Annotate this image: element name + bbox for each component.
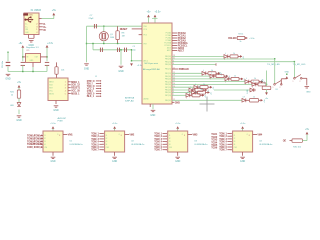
pin IC1 PC5/SCL <box>172 45 177 47</box>
pin end mark <box>254 89 256 91</box>
pin IC1 PC4/SDA <box>172 42 177 44</box>
svg-text:1: 1 <box>65 82 66 84</box>
wire gnd rail <box>86 26 88 62</box>
pin X1 D- <box>39 23 43 25</box>
svg-text:1k: 1k <box>203 84 205 86</box>
USB name bar <box>23 13 28 15</box>
svg-text:PC5/SCL: PC5/SCL <box>165 45 172 47</box>
resistor LED1 <box>208 72 216 75</box>
resistor RM <box>262 86 271 89</box>
pin dot <box>102 149 103 150</box>
svg-text:PB7: PB7 <box>144 44 147 46</box>
supply arrow right <box>226 75 228 78</box>
pin <box>206 92 208 94</box>
capacitor C9 electrolytic <box>6 62 11 65</box>
svg-text:MOSI: MOSI <box>49 93 54 95</box>
pin <box>227 135 230 137</box>
svg-text:BLK_1: BLK_1 <box>87 95 95 98</box>
pin <box>163 143 166 145</box>
svg-text:L: L <box>246 78 247 80</box>
pin <box>96 93 100 95</box>
wire net LED5 <box>172 83 252 85</box>
supply arrow <box>265 92 268 95</box>
wire VBUS to +5V <box>42 18 54 20</box>
svg-text:23: 23 <box>173 80 175 82</box>
junction <box>92 43 93 44</box>
pin dot <box>230 141 231 142</box>
junction <box>103 43 104 44</box>
wire XTAL1 net <box>87 43 143 45</box>
pin <box>99 141 102 143</box>
svg-text:GND: GND <box>175 101 180 104</box>
pin dot <box>102 141 103 142</box>
svg-text:3: 3 <box>65 88 66 90</box>
svg-text:26: 26 <box>173 83 175 85</box>
driver U3 body <box>168 131 188 152</box>
pin <box>99 146 102 148</box>
wire <box>114 129 116 131</box>
junction <box>22 56 23 57</box>
resistor R30 <box>292 139 302 142</box>
svg-text:PB6(X2): PB6(X2) <box>165 79 171 81</box>
pin U4 GND <box>242 152 244 156</box>
svg-text:PB0(X0): PB0(X0) <box>165 64 171 66</box>
wire net LED8 <box>172 92 192 94</box>
wire <box>214 89 250 91</box>
pin <box>249 81 251 83</box>
capacitor C5 <box>118 48 120 52</box>
wire VCC <box>148 17 150 23</box>
svg-text:MOSI_1: MOSI_1 <box>71 93 80 96</box>
pin <box>96 80 100 82</box>
pin U1 GND <box>52 152 54 156</box>
svg-text:USB1: USB1 <box>28 14 33 16</box>
wire <box>22 65 24 71</box>
pin <box>96 82 100 84</box>
origin cross mark <box>200 97 215 112</box>
svg-text:D-: D- <box>25 24 27 26</box>
junction <box>274 58 275 59</box>
junction <box>103 26 104 27</box>
LED LED3 <box>225 77 229 81</box>
svg-text:L: L <box>187 92 188 94</box>
ground <box>240 157 245 158</box>
pin dot <box>100 93 101 94</box>
svg-text:GND: GND <box>150 115 155 117</box>
svg-text:1M: 1M <box>122 36 125 38</box>
wire <box>131 50 133 61</box>
wire net TXLED <box>172 55 224 57</box>
junction <box>32 71 33 72</box>
svg-text:1k: 1k <box>253 97 255 99</box>
pin IC1 PWRLED <box>172 68 178 70</box>
svg-text:RXLED: RXLED <box>228 37 236 40</box>
pin <box>200 94 202 96</box>
junction <box>117 43 118 44</box>
pin IC1 PC0/A0 <box>172 32 177 34</box>
svg-text:29: 29 <box>173 86 175 88</box>
crystal Q1 <box>99 32 108 41</box>
svg-text:5: 5 <box>65 93 66 95</box>
pin <box>96 95 100 97</box>
svg-text:J1: J1 <box>95 76 97 78</box>
svg-text:8: 8 <box>249 135 250 137</box>
svg-text:IC5: IC5 <box>26 50 29 52</box>
resistor LED2 <box>216 75 224 78</box>
wire <box>103 26 105 32</box>
svg-text:TGM_7: TGM_7 <box>154 149 162 152</box>
ground below X1 <box>29 41 34 42</box>
resistor R25 <box>17 90 20 98</box>
supply +3.3V arrow <box>46 45 49 48</box>
pin X1 shield <box>33 35 35 39</box>
svg-text:I4: I4 <box>106 144 108 146</box>
wire <box>177 129 179 131</box>
svg-text:PB6: PB6 <box>144 26 147 28</box>
svg-text:2: 2 <box>65 85 66 87</box>
supply arrow right <box>261 99 263 102</box>
wire AVCC net <box>132 60 143 62</box>
pin <box>99 143 102 145</box>
junction node VIN <box>7 52 8 53</box>
pin dot <box>100 83 101 84</box>
svg-text:I3: I3 <box>44 141 46 143</box>
LED TXLED <box>224 55 228 59</box>
wire <box>242 129 244 131</box>
svg-text:L: L <box>195 84 196 86</box>
pin U3 GND <box>177 152 179 156</box>
wire <box>7 67 9 72</box>
pin <box>208 86 210 88</box>
svg-text:PB5(X1): PB5(X1) <box>165 69 171 71</box>
pin IC1 ADC7 <box>172 50 177 52</box>
wire net LED7 <box>172 89 189 91</box>
svg-text:1k: 1k <box>195 92 197 94</box>
pin <box>256 83 258 85</box>
pin <box>227 141 230 143</box>
ground <box>17 116 22 117</box>
svg-text:I2: I2 <box>106 138 108 140</box>
pin <box>206 72 208 74</box>
pin JP1 5 <box>68 93 71 95</box>
svg-text:I2: I2 <box>44 138 46 140</box>
svg-text:GND: GND <box>50 161 55 163</box>
svg-text:C5: C5 <box>133 46 135 48</box>
header JP1 body <box>48 78 68 101</box>
wire to switch S1 <box>274 59 276 84</box>
resistor R9 <box>55 67 58 74</box>
LED LED1 <box>202 71 206 75</box>
pin <box>198 86 200 88</box>
wire <box>52 129 54 131</box>
ground <box>305 87 310 88</box>
svg-text:I1: I1 <box>106 135 108 137</box>
svg-text:1: 1 <box>273 87 274 89</box>
svg-text:PB3(X3): PB3(X3) <box>165 59 171 61</box>
svg-text:PB4(X0): PB4(X0) <box>165 76 171 78</box>
pin end mark <box>215 63 217 65</box>
svg-text:ULN2803A-2a: ULN2803A-2a <box>131 143 145 146</box>
svg-text:+5v: +5v <box>264 100 266 103</box>
pin dot <box>166 136 167 137</box>
svg-text:18: 18 <box>173 75 175 77</box>
wire <box>32 67 34 72</box>
svg-text:8: 8 <box>59 135 60 137</box>
pin resistor R9 top <box>56 62 58 66</box>
svg-text:GND: GND <box>118 70 124 73</box>
svg-text:+5.5v: +5.5v <box>240 123 246 125</box>
svg-text:L: L <box>226 76 227 78</box>
junction <box>286 74 287 75</box>
svg-text:1: 1 <box>293 81 294 83</box>
svg-text:TGX6: TGX6 <box>211 147 218 150</box>
svg-text:PD5: PD5 <box>144 35 147 37</box>
supply arrow <box>176 126 179 129</box>
svg-text:+5v: +5v <box>265 98 268 100</box>
pin IC1 PC3/A3 <box>172 40 177 42</box>
pin dot <box>102 133 103 134</box>
pin <box>193 89 195 91</box>
capacitor C11 <box>45 62 49 65</box>
svg-text:2: 2 <box>280 87 281 89</box>
pin <box>190 94 192 96</box>
svg-text:OE: OE <box>283 140 287 143</box>
USB trident icon <box>25 17 34 23</box>
pin U1 2 <box>40 137 43 139</box>
svg-text:GND: GND <box>53 109 59 112</box>
pin dot <box>166 144 167 145</box>
ground <box>119 66 124 67</box>
pin IC1 PC2/A2 <box>172 37 177 39</box>
svg-text:VM4: VM4 <box>257 133 262 136</box>
svg-text:1k: 1k <box>262 80 264 82</box>
LED LED6 <box>194 85 198 89</box>
resistor LED6 <box>200 86 208 89</box>
supply arrow right <box>202 94 204 97</box>
pin <box>227 138 230 140</box>
svg-text:I3: I3 <box>169 141 171 143</box>
svg-text:ULN2803A-1a: ULN2803A-1a <box>70 143 84 146</box>
pin JP1 4 <box>68 90 71 92</box>
pin <box>163 138 166 140</box>
svg-text:LED: LED <box>247 89 249 93</box>
pin JP1 1 <box>68 81 71 83</box>
wire <box>22 48 24 62</box>
wire net LED6 <box>172 86 194 88</box>
svg-text:PB5(X1): PB5(X1) <box>165 61 171 63</box>
microcontroller IC1 ATmega328 body <box>142 23 172 104</box>
wire <box>7 52 9 61</box>
wire tick <box>152 18 158 20</box>
wire ground rail <box>8 71 47 73</box>
LED LED9 <box>186 93 190 97</box>
svg-text:COM_1: COM_1 <box>27 146 36 149</box>
pin <box>163 135 166 137</box>
pin <box>216 72 218 74</box>
svg-text:MCU-pro mini: MCU-pro mini <box>145 62 159 65</box>
pin resistor R8 bottom <box>117 40 119 44</box>
supply arrow <box>154 15 157 18</box>
pin U1 1 <box>40 135 43 137</box>
pin U4 out <box>253 134 257 136</box>
svg-text:ATmega328P-AU: ATmega328P-AU <box>143 68 160 71</box>
driver U1 body <box>43 131 63 152</box>
resistor TXLED <box>230 55 238 58</box>
wire <box>266 90 268 93</box>
driver U2 body <box>105 131 125 152</box>
pin dot <box>230 149 231 150</box>
svg-text:12: 12 <box>173 99 175 101</box>
pin JP1 GND <box>55 101 57 105</box>
junction <box>131 49 132 50</box>
svg-text:PGM: PGM <box>58 121 63 123</box>
LED LED4 <box>245 80 249 84</box>
wire up <box>53 15 55 18</box>
pin IC1 RESET <box>132 28 142 30</box>
svg-text:1k: 1k <box>201 89 203 91</box>
supply arrow right <box>218 72 220 75</box>
supply arrow <box>113 126 116 129</box>
pin <box>227 146 230 148</box>
pin dot <box>102 146 103 147</box>
svg-text:22pF: 22pF <box>89 18 95 20</box>
svg-text:16M: 16M <box>110 37 114 39</box>
pin <box>236 37 237 39</box>
pin X1 VBUS <box>39 18 42 20</box>
pin <box>238 55 240 57</box>
svg-text:+5v: +5v <box>213 87 215 90</box>
svg-text:GND: GND <box>175 161 180 163</box>
pin <box>96 90 100 92</box>
LED LED2 <box>210 74 214 78</box>
svg-text:PB7(X3): PB7(X3) <box>165 87 171 89</box>
svg-text:S1: S1 <box>275 89 277 91</box>
svg-text:+5.5v: +5.5v <box>175 123 181 125</box>
wire net L9 <box>172 99 242 101</box>
svg-text:PB2(X2): PB2(X2) <box>165 90 171 92</box>
svg-text:GND: GND <box>285 71 290 73</box>
LED LED5 <box>252 83 256 87</box>
pin dot <box>166 133 167 134</box>
svg-text:15: 15 <box>173 72 175 74</box>
svg-text:I4: I4 <box>44 144 46 146</box>
svg-text:X1 USB-B: X1 USB-B <box>31 10 42 12</box>
LED10 <box>242 98 246 102</box>
svg-text:4: 4 <box>65 90 66 92</box>
pin <box>227 143 230 145</box>
pin U3 out <box>188 134 192 136</box>
resistor LED4 <box>251 80 259 83</box>
svg-text:AGND: AGND <box>144 98 150 101</box>
svg-text:PB1(X1): PB1(X1) <box>165 73 171 75</box>
wire net LED2 <box>172 75 210 77</box>
pin IC1 <box>172 101 174 103</box>
svg-text:31: 31 <box>173 58 175 60</box>
capacitor C4 <box>100 48 102 52</box>
pin dot <box>102 138 103 139</box>
ground <box>84 64 89 65</box>
connector X1 USB-B body <box>24 13 39 35</box>
svg-text:11: 11 <box>173 68 175 70</box>
svg-text:TGM_7: TGM_7 <box>91 149 99 152</box>
svg-text:ATMEGA: ATMEGA <box>125 96 135 99</box>
svg-text:L: L <box>203 70 204 72</box>
pin U2 out <box>125 134 129 136</box>
pin <box>227 133 230 135</box>
pin U1 5 <box>40 146 43 148</box>
pin U2 GND <box>114 152 116 156</box>
supply arrow right <box>240 55 242 58</box>
gnd flag arrow <box>285 76 288 79</box>
svg-text:+5v: +5v <box>211 92 213 95</box>
svg-text:L: L <box>253 81 254 83</box>
pin IC1 GND <box>149 104 151 107</box>
wire <box>120 50 122 65</box>
switch S1 <box>274 81 282 86</box>
svg-text:VM2: VM2 <box>129 133 134 136</box>
svg-text:R30 10k: R30 10k <box>293 147 302 149</box>
svg-text:I1: I1 <box>169 135 171 137</box>
svg-text:I3: I3 <box>106 141 108 143</box>
svg-text:I2: I2 <box>234 138 236 140</box>
switch S2 <box>294 75 302 80</box>
svg-text:I1: I1 <box>44 135 46 137</box>
pin U1 3 <box>40 140 43 142</box>
ground <box>112 157 117 158</box>
svg-text:GND: GND <box>16 119 22 122</box>
svg-text:GND: GND <box>5 77 11 80</box>
ground <box>151 110 156 111</box>
pin <box>229 78 231 80</box>
svg-text:ID: ID <box>43 29 46 32</box>
svg-text:AVR-ISP: AVR-ISP <box>58 117 67 120</box>
pin dot <box>230 133 231 134</box>
svg-text:1k: 1k <box>233 53 235 55</box>
pin <box>227 149 230 151</box>
resistor LED7 <box>195 88 203 91</box>
pin dot <box>166 141 167 142</box>
pin <box>99 135 102 137</box>
supply arrow right <box>210 86 212 89</box>
resistor R8 <box>116 31 119 40</box>
pin JP1 3 <box>68 87 71 89</box>
pin dot <box>102 144 103 145</box>
pin IC1 <box>139 34 142 36</box>
junction <box>46 56 47 57</box>
wire <box>152 104 154 109</box>
pin <box>244 37 247 39</box>
wire net TG_M1 <box>172 58 275 60</box>
regulator IC5 body <box>26 54 41 63</box>
svg-text:I2: I2 <box>169 138 171 140</box>
svg-text:PB4(X0): PB4(X0) <box>165 92 171 94</box>
svg-text:I4: I4 <box>234 144 236 146</box>
pin X1 D+ <box>39 26 43 28</box>
pin dot <box>100 90 101 91</box>
pin dot <box>230 138 231 139</box>
svg-text:+5.5v: +5.5v <box>50 123 56 125</box>
pin <box>259 81 261 83</box>
svg-text:OUT: OUT <box>35 57 39 59</box>
pin dot <box>166 146 167 147</box>
pin X1 GND <box>28 35 30 39</box>
svg-text:TG_M1_LED: TG_M1_LED <box>267 64 280 66</box>
svg-text:+5.5v: +5.5v <box>155 11 162 14</box>
svg-text:COM_1: COM_1 <box>34 146 43 149</box>
svg-text:ADC7: ADC7 <box>178 49 185 52</box>
svg-text:GND: GND <box>306 92 311 94</box>
supply arrow right <box>241 78 243 81</box>
